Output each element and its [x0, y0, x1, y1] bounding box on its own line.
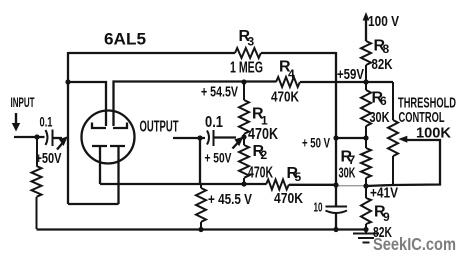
node R1-R2 junction: [241, 134, 246, 139]
svg-text:INPUT: INPUT: [11, 94, 35, 110]
wire cap to ground bus: [335, 213, 337, 230]
svg-text:100K: 100K: [416, 126, 452, 142]
svg-text:30K: 30K: [339, 165, 356, 182]
svg-text:+50V: +50V: [36, 150, 62, 167]
wire left vertical bus (plate line down to cathode box): [67, 52, 69, 204]
wire top plate-supply line left of R3: [68, 52, 235, 54]
wire cathode return box bottom: [68, 203, 119, 205]
wire right anode line to R4: [114, 82, 277, 127]
node output cap junction: [197, 135, 202, 140]
svg-text:OUTPUT: OUTPUT: [140, 119, 179, 136]
output +50V pointer arrow: [233, 143, 239, 149]
svg-text:470K: 470K: [274, 190, 303, 207]
resistor R6: [361, 90, 371, 148]
resistor R9: [361, 198, 371, 233]
svg-text:100 V: 100 V: [368, 13, 399, 30]
node load resistor ground junction: [198, 227, 203, 232]
svg-text:5: 5: [295, 170, 302, 184]
svg-text:+ 50 V: + 50 V: [302, 135, 330, 151]
svg-text:+59V: +59V: [337, 67, 364, 83]
supply 100V arrow: [365, 18, 367, 41]
svg-text:10: 10: [314, 200, 323, 215]
svg-text:CONTROL: CONTROL: [399, 110, 445, 126]
resistor R2: [239, 137, 249, 184]
svg-text:+ 45.5 V: + 45.5 V: [208, 191, 252, 208]
wire from C1 to input node: [54, 137, 63, 139]
svg-text:470K: 470K: [271, 89, 299, 106]
resistor R1: [239, 82, 249, 137]
svg-text:30K: 30K: [370, 109, 390, 126]
wire input lead: [14, 136, 45, 138]
svg-text:0.1: 0.1: [205, 114, 223, 131]
svg-text:8: 8: [383, 42, 390, 56]
node ground junction: [363, 227, 368, 232]
resistor R5 zigzag: [266, 180, 289, 190]
svg-text:6: 6: [380, 94, 387, 108]
ground bus wire: [37, 228, 367, 230]
node +59V junction: [363, 79, 368, 84]
tube V1 6AL5 envelope: [82, 111, 135, 164]
cathode right of V1 with lead: [110, 146, 125, 204]
node R1 top junction: [241, 79, 246, 84]
node cap ground junction: [333, 227, 338, 232]
wire mid vertical rail x336: [335, 52, 337, 206]
node +41V junction: [363, 183, 368, 188]
input +50V pointer arrow: [57, 143, 63, 150]
node +50V junction right: [363, 135, 368, 140]
wire top plate-supply line right of R3: [261, 52, 336, 54]
svg-text:+ 54.5V: + 54.5V: [201, 84, 238, 101]
wire from C2 to R1-R2 node: [215, 136, 237, 138]
wire faint link 45V line to 41V node: [338, 185, 364, 187]
resistor R8: [361, 41, 371, 90]
svg-text:+ 50V: + 50V: [205, 150, 232, 166]
svg-text:9: 9: [383, 210, 390, 224]
resistor R4 zigzag: [276, 77, 300, 87]
resistor output load (unlabeled): [196, 184, 206, 229]
svg-text:4: 4: [288, 67, 295, 81]
svg-text:82K: 82K: [372, 56, 393, 73]
node R2 bottom junction: [241, 181, 246, 186]
resistor R3 zigzag: [235, 48, 261, 58]
node junction left anode branch: [65, 79, 70, 84]
resistor input grid (unlabeled): [32, 137, 42, 229]
pot wiper arrow: [398, 136, 407, 143]
svg-text:470K: 470K: [248, 165, 273, 182]
potentiometer threshold control 100K body: [388, 82, 398, 185]
svg-text:0.1: 0.1: [40, 115, 53, 130]
wire +59V line from R4 to threshold pot corner: [300, 81, 393, 83]
svg-text:+41V: +41V: [370, 186, 398, 202]
svg-text:SeekIC.com: SeekIC.com: [373, 234, 456, 254]
node 50V rail to R6 link left: [333, 135, 338, 140]
wire cathode output line: [100, 183, 266, 185]
resistor R7: [361, 148, 371, 198]
anode plate left of V1: [92, 123, 106, 129]
ground symbol: [353, 234, 379, 243]
wire output lead: [173, 137, 205, 139]
svg-text:1 MEG: 1 MEG: [230, 60, 263, 77]
node R5 to rail junction: [333, 182, 338, 187]
node input junction: [34, 134, 39, 139]
wire 50V link: [336, 137, 366, 139]
wire left anode branch: [68, 82, 106, 126]
anode plate right of V1: [113, 123, 127, 129]
cathode left of V1 with lead: [92, 146, 107, 184]
wire from R5 to 50V rail: [289, 184, 336, 186]
capacitor C3 10uF: [326, 207, 348, 214]
svg-text:6AL5: 6AL5: [104, 30, 146, 49]
svg-text:470K: 470K: [248, 126, 278, 143]
INPUT terminal arrow: [15, 113, 17, 124]
wire output node down to cathode line: [199, 138, 201, 184]
wire +41V to pot bottom and wiper loop: [366, 140, 440, 186]
capacitor C2 0.1 output coupling: [207, 130, 214, 146]
svg-text:2: 2: [261, 148, 268, 162]
capacitor C1 0.1 input coupling: [46, 130, 53, 147]
svg-text:3: 3: [248, 35, 255, 49]
